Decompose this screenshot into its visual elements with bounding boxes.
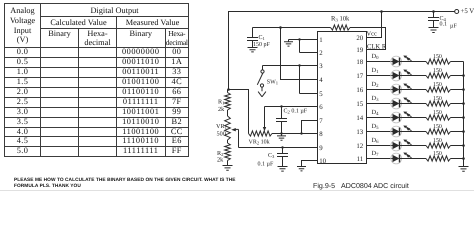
resistor 150 row 5 bbox=[426, 124, 465, 134]
LED D7 row bbox=[367, 150, 427, 164]
svg-text:17: 17 bbox=[356, 73, 363, 80]
svg-text:10: 10 bbox=[319, 158, 326, 165]
svg-text:Vcc: Vcc bbox=[367, 31, 377, 38]
svg-text:3: 3 bbox=[319, 63, 323, 70]
svg-text:8: 8 bbox=[319, 131, 323, 138]
svg-text:14: 14 bbox=[356, 115, 363, 122]
wire pin 3 WR / pin 5 INTR tie bbox=[263, 64, 318, 93]
wire pin 7 Vin- bbox=[302, 121, 318, 134]
ground pins 1-2 bbox=[284, 40, 300, 47]
svg-text:150 pF: 150 pF bbox=[253, 42, 271, 48]
LED D5 row bbox=[367, 123, 427, 137]
LED D2 row bbox=[367, 81, 427, 95]
wire pin 6 Vin+ bbox=[265, 106, 318, 108]
svg-text:D1: D1 bbox=[372, 67, 380, 75]
resistor 150 row 4 bbox=[426, 110, 465, 120]
LED D1 row bbox=[367, 67, 427, 81]
svg-text:0.1 µF: 0.1 µF bbox=[258, 162, 274, 168]
resistor 150 row 6 bbox=[426, 138, 465, 148]
wire pin 8 AGND line bbox=[272, 132, 318, 134]
junction node CLK IN bbox=[279, 26, 282, 29]
svg-text:5: 5 bbox=[319, 91, 323, 98]
potentiometer VR2 10k bbox=[249, 107, 273, 146]
LED D0 row bbox=[367, 53, 427, 67]
svg-text:VR1: VR1 bbox=[216, 123, 228, 130]
switch SW1 bbox=[257, 66, 279, 97]
svg-text:6: 6 bbox=[319, 104, 323, 111]
wire pin 4 CLK IN bbox=[281, 28, 318, 80]
ground LED rail bbox=[459, 167, 469, 172]
svg-text:SW1: SW1 bbox=[267, 80, 279, 86]
wire pin 10 DGND bbox=[297, 161, 318, 171]
potentiometer VR1 500 bbox=[216, 116, 239, 140]
svg-text:D6: D6 bbox=[372, 137, 380, 145]
svg-text:D4: D4 bbox=[372, 109, 380, 117]
wire LED common rail bbox=[463, 62, 465, 167]
LED D3 row bbox=[367, 95, 427, 109]
svg-text:20: 20 bbox=[356, 35, 363, 42]
svg-text:15: 15 bbox=[356, 101, 363, 108]
capacitor C3 0.1uF bbox=[258, 148, 289, 172]
capacitor C2 0.1uF bbox=[276, 105, 308, 133]
wire Vcc pin 20 bbox=[367, 12, 382, 38]
svg-text:R1: R1 bbox=[218, 98, 225, 105]
svg-text:C1: C1 bbox=[259, 35, 266, 41]
+5V terminal bbox=[455, 8, 474, 15]
svg-text:16: 16 bbox=[356, 87, 363, 94]
svg-text:D5: D5 bbox=[372, 123, 380, 131]
svg-text:1: 1 bbox=[319, 37, 322, 44]
resistor 150 row 0 bbox=[426, 54, 464, 64]
resistor R1 2k bbox=[218, 90, 230, 117]
capacitor C4 0.1uF bbox=[428, 12, 457, 33]
ground at analog common bbox=[277, 134, 286, 141]
wire pin 1 CS and pin 2 RD tie bbox=[298, 38, 317, 52]
capacitor C1 150pF bbox=[247, 28, 271, 52]
svg-text:12: 12 bbox=[356, 143, 363, 150]
svg-text:2k: 2k bbox=[217, 156, 224, 163]
svg-text:18: 18 bbox=[356, 59, 363, 66]
resistor 150 row 1 bbox=[426, 68, 465, 78]
LED D6 row bbox=[367, 137, 427, 151]
svg-text:11: 11 bbox=[357, 156, 364, 163]
svg-text:VR2 10k: VR2 10k bbox=[249, 138, 270, 145]
resistor 150 row 3 bbox=[426, 96, 465, 106]
wire +5V top rail bbox=[227, 10, 454, 91]
svg-text:4: 4 bbox=[319, 77, 323, 84]
wire +5V to VR2 left end bbox=[229, 90, 249, 134]
svg-text:2k: 2k bbox=[218, 106, 225, 113]
svg-text:CLK R: CLK R bbox=[367, 43, 387, 50]
resistor R3 10k bbox=[253, 16, 386, 50]
svg-text:D0: D0 bbox=[372, 53, 380, 61]
svg-text:D3: D3 bbox=[372, 95, 380, 103]
svg-text:+5 V: +5 V bbox=[461, 8, 474, 15]
pin numbers 1-10 bbox=[319, 37, 326, 165]
IC U1 ADC0804 body bbox=[318, 32, 367, 164]
wire pin 9 VREF/2 bbox=[239, 129, 318, 148]
svg-text:C3: C3 bbox=[268, 153, 275, 159]
ground below R2 bbox=[223, 165, 233, 170]
svg-text:C2 0.1 µF: C2 0.1 µF bbox=[284, 109, 308, 115]
svg-text:D7: D7 bbox=[372, 150, 380, 158]
pin numbers 20-11 bbox=[356, 35, 363, 163]
svg-text:19: 19 bbox=[356, 47, 363, 54]
svg-text:2: 2 bbox=[319, 50, 323, 57]
svg-text:7: 7 bbox=[319, 118, 323, 125]
svg-text:13: 13 bbox=[356, 129, 363, 136]
svg-text:500: 500 bbox=[217, 130, 226, 137]
resistor 150 row 2 bbox=[426, 82, 465, 92]
svg-text:D2: D2 bbox=[372, 81, 380, 89]
LED D4 row bbox=[367, 109, 427, 123]
svg-text:0.1: 0.1 bbox=[440, 22, 448, 28]
svg-text:µF: µF bbox=[450, 24, 457, 30]
resistor R2 2k bbox=[217, 140, 230, 165]
svg-text:R3 10k: R3 10k bbox=[331, 16, 350, 24]
resistor 150 row 7 bbox=[426, 151, 465, 161]
label CLK R pin 19 bbox=[367, 43, 387, 50]
svg-text:9: 9 bbox=[319, 145, 323, 152]
